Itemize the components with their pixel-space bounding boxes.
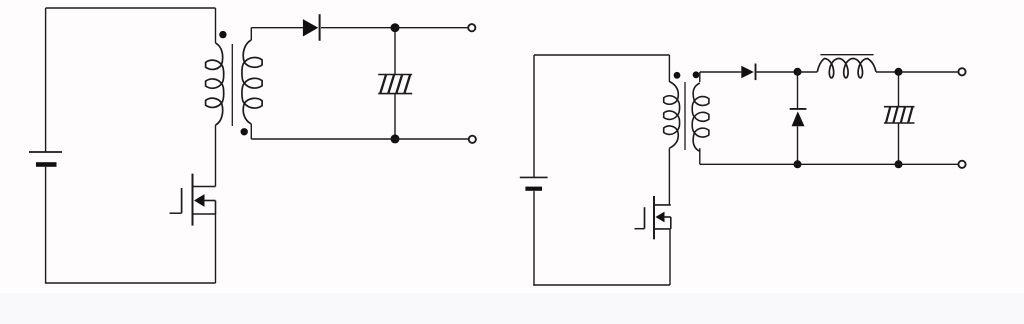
- Q2 MOSFET source bar: [654, 228, 671, 230]
- Q2 MOSFET gate plate: [644, 207, 646, 229]
- wire: battery V2 to bottom rail: [533, 191, 535, 286]
- inductor L1 winding: [817, 59, 876, 78]
- wire: node D down to load RL2: [898, 72, 900, 107]
- wire: transformer T2 primary top lead: [668, 55, 670, 82]
- output terminal + (left circuit): [468, 24, 475, 31]
- wire: node C to inductor L1: [797, 71, 817, 73]
- wire: node A to output terminal +: [395, 27, 468, 29]
- wire: node D to output terminal +: [899, 71, 959, 73]
- wire: left circuit left side down to battery: [45, 8, 47, 153]
- Q1 MOSFET gate plate: [181, 188, 183, 213]
- wire: secondary top rail to diode D2: [700, 71, 742, 73]
- wire: secondary top rail to diode D1: [251, 27, 303, 29]
- wire: T1 secondary top lead: [250, 28, 252, 40]
- transformer T1 primary polarity dot: [219, 31, 226, 38]
- transformer T2 primary polarity dot: [674, 72, 681, 79]
- transformer T1 primary winding: [206, 43, 224, 125]
- wire: T2 primary bottom lead to MOSFET Q2 drain: [668, 148, 670, 205]
- wire: diode D1 to node A: [321, 27, 395, 29]
- wire: secondary bottom rail: [251, 138, 468, 140]
- transformer T2 core: [684, 82, 686, 150]
- wire: node C down to freewheel diode D3: [797, 72, 799, 109]
- wire: load RL1 to node B: [394, 94, 396, 139]
- Q2 MOSFET body bar with arrow: [656, 212, 665, 223]
- wire: left circuit bottom rail: [46, 282, 216, 284]
- wire: battery V1 to bottom rail: [45, 167, 47, 284]
- wire: T1 primary bottom lead to MOSFET Q1 drain: [215, 125, 217, 187]
- diode D2 (forward rectifier): [741, 66, 754, 78]
- Q1 MOSFET gate lead stub: [170, 212, 182, 214]
- battery V2 negative plate (thick): [525, 187, 542, 191]
- wire: T2 secondary bottom lead: [699, 148, 701, 164]
- node C junction dot: [794, 68, 802, 76]
- wire: MOSFET Q2 source to bottom rail: [669, 229, 671, 285]
- battery V1 positive plate (long): [29, 151, 62, 153]
- wire: left circuit top rail: [46, 7, 216, 9]
- Q1 MOSFET channel line: [192, 174, 194, 226]
- freewheel diode D3 cathode bar: [790, 108, 807, 110]
- transformer T1 secondary winding: [242, 40, 262, 124]
- Q2 MOSFET body-source link: [670, 217, 672, 229]
- battery V2 positive plate (long): [520, 176, 548, 178]
- node E junction dot: [794, 160, 802, 168]
- diode D1 (output rectifier): [303, 19, 318, 36]
- transformer T2 secondary polarity dot: [693, 71, 700, 78]
- wire: right circuit top rail (primary): [534, 54, 669, 56]
- Q1 MOSFET drain bar: [193, 186, 216, 188]
- Q1 MOSFET source bar: [193, 213, 216, 215]
- transformer T2 primary winding: [664, 82, 680, 149]
- load RL1 (hatched impedance): [378, 74, 412, 76]
- node F junction dot: [895, 160, 903, 168]
- load RL2 (hatched impedance): [884, 106, 915, 108]
- wire: T1 secondary bottom lead: [250, 124, 252, 139]
- wire: inductor L1 to node D: [876, 71, 899, 73]
- wire: right circuit left side down to battery V2: [533, 55, 535, 178]
- output terminal - (right circuit): [958, 161, 965, 168]
- output terminal + (right circuit): [958, 68, 965, 75]
- wire: node A down to load RL1: [394, 28, 396, 75]
- wire: MOSFET Q1 source to bottom rail: [215, 214, 217, 283]
- Q2 MOSFET channel line: [653, 196, 655, 239]
- transformer T1 core: [231, 44, 233, 126]
- wire: freewheel diode D3 to node E: [797, 126, 799, 164]
- wire: transformer T1 primary top lead: [215, 8, 217, 43]
- inductor L1 core line: [820, 54, 873, 56]
- transformer T2 secondary winding: [692, 83, 709, 151]
- Q1 MOSFET body bar with arrow: [194, 194, 205, 207]
- wire: diode D2 to node C: [757, 71, 798, 73]
- wire: secondary bottom rail: [700, 163, 959, 165]
- transformer T1 secondary polarity dot: [241, 128, 248, 135]
- Q1 MOSFET body-source link: [215, 201, 217, 215]
- output terminal - (left circuit): [469, 136, 476, 143]
- node D junction dot: [895, 68, 903, 76]
- Q2 MOSFET drain bar: [654, 204, 671, 206]
- wire: load RL2 to node F: [898, 123, 900, 164]
- freewheel diode D3 triangle: [792, 111, 805, 126]
- node A junction dot: [391, 23, 400, 32]
- battery V1 negative plate (thick): [36, 162, 57, 167]
- wire: right circuit bottom rail: [533, 284, 670, 286]
- Q2 MOSFET gate lead stub: [635, 228, 645, 230]
- wire: T2 secondary top lead: [699, 72, 701, 82]
- node B junction dot: [391, 134, 400, 143]
